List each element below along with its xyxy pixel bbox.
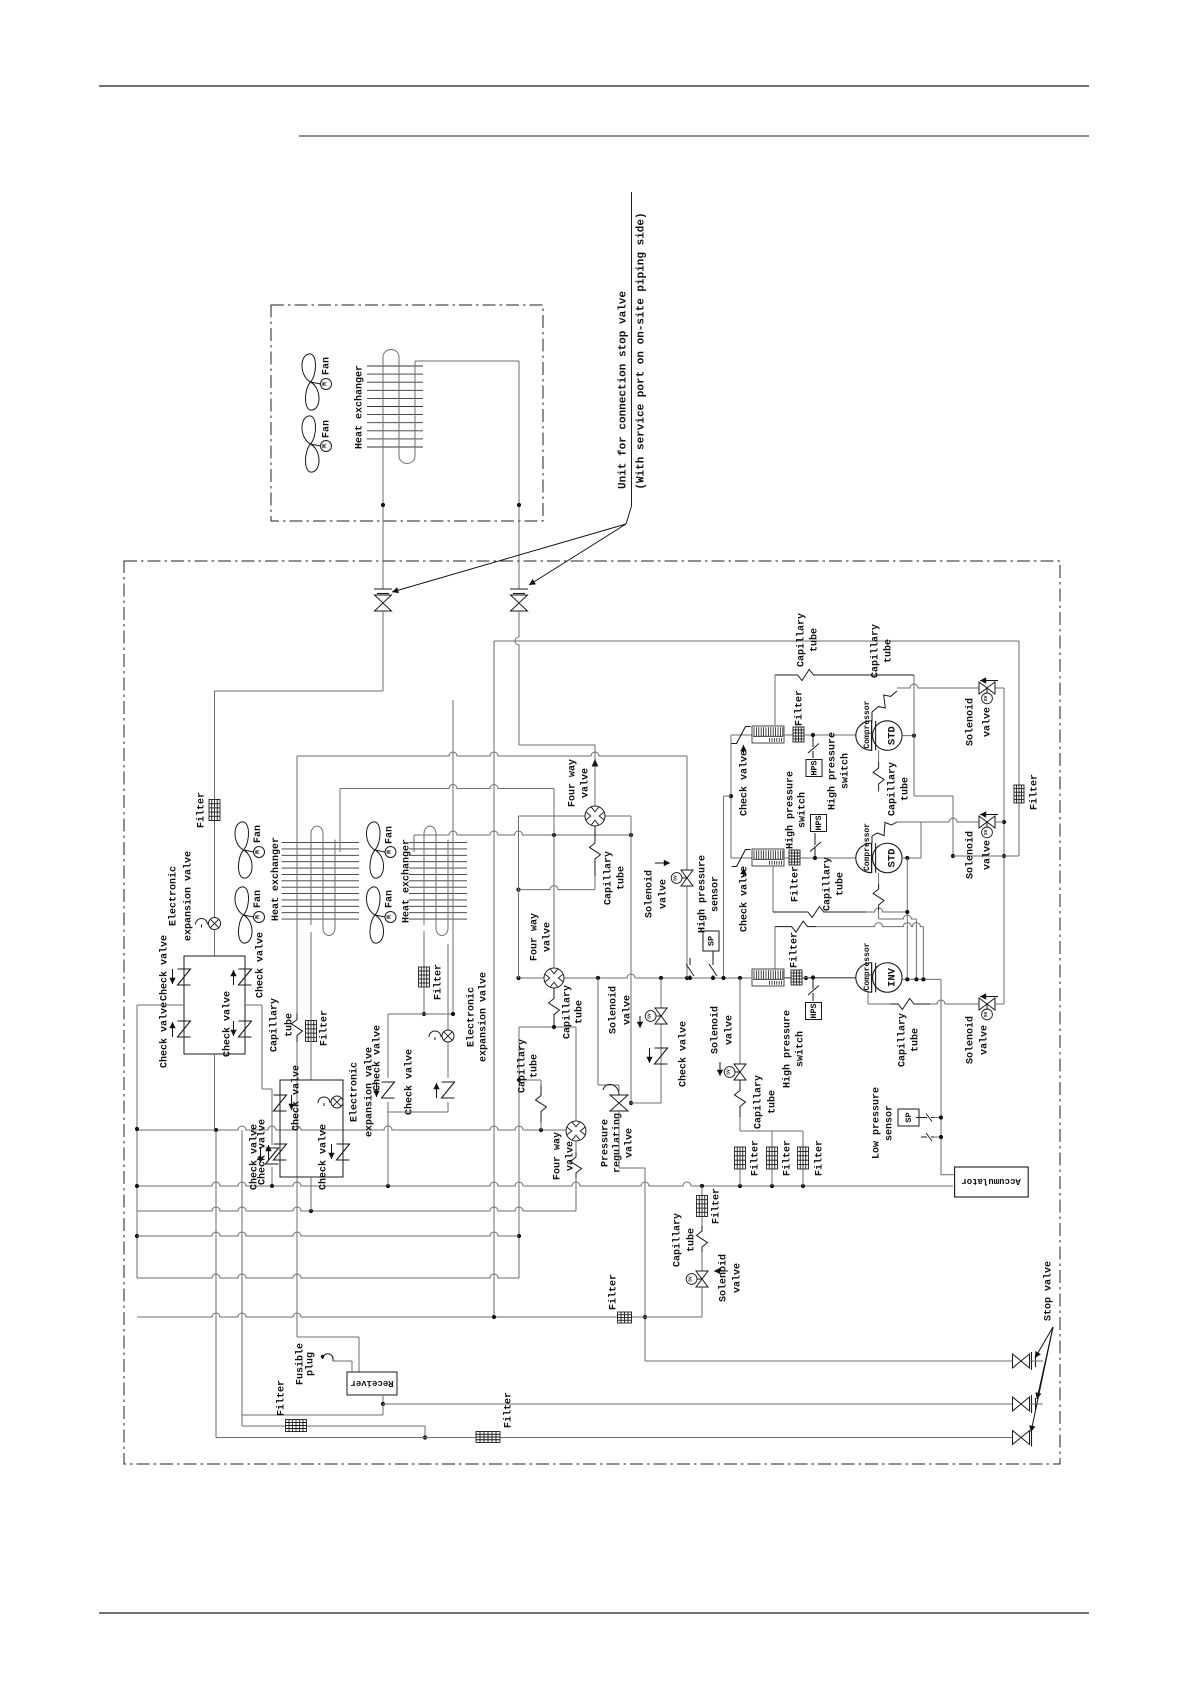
svg-text:M: M: [322, 444, 329, 448]
svg-text:Filter: Filter: [793, 690, 805, 726]
svg-text:plug: plug: [304, 1352, 316, 1376]
svg-text:Pressure: Pressure: [600, 1119, 611, 1167]
svg-text:Check valve: Check valve: [221, 991, 233, 1057]
svg-text:valve: valve: [657, 879, 669, 909]
svg-text:Filter: Filter: [1028, 774, 1040, 810]
svg-text:Solenoid: Solenoid: [964, 831, 976, 879]
svg-text:valve: valve: [541, 922, 553, 952]
svg-text:switch: switch: [794, 1031, 806, 1067]
svg-text:Check valve: Check valve: [256, 1119, 268, 1185]
svg-text:Capillary: Capillary: [869, 624, 881, 678]
svg-text:Check valve: Check valve: [677, 1021, 689, 1087]
svg-text:Solenoid: Solenoid: [607, 986, 619, 1034]
svg-text:Filter: Filter: [502, 1392, 514, 1428]
svg-text:Fan: Fan: [253, 890, 264, 908]
svg-text:Compressor: Compressor: [863, 700, 872, 748]
svg-text:sensor: sensor: [710, 876, 721, 912]
svg-text:Check valve: Check valve: [254, 932, 266, 998]
svg-text:Fan: Fan: [321, 357, 332, 375]
svg-text:M: M: [255, 850, 262, 854]
svg-text:tube: tube: [283, 1013, 295, 1037]
svg-text:switch: switch: [796, 792, 808, 828]
svg-text:Four way: Four way: [567, 759, 578, 807]
svg-text:Capillary: Capillary: [602, 851, 614, 905]
svg-text:Fan: Fan: [321, 420, 332, 438]
svg-text:Solenoid: Solenoid: [709, 1006, 721, 1054]
svg-text:Electronic: Electronic: [348, 1062, 360, 1122]
svg-text:Capillary: Capillary: [752, 1075, 764, 1129]
svg-text:M: M: [322, 382, 329, 386]
svg-text:valve: valve: [621, 995, 633, 1025]
svg-text:valve: valve: [723, 1015, 735, 1045]
svg-text:Check valve: Check valve: [158, 935, 170, 1001]
svg-text:M: M: [386, 915, 393, 919]
svg-text:Fan: Fan: [253, 825, 264, 843]
svg-text:SV: SV: [983, 695, 989, 701]
svg-text:High pressure: High pressure: [826, 732, 838, 810]
svg-text:SV: SV: [647, 1013, 653, 1019]
svg-text:Capillary: Capillary: [795, 613, 807, 667]
svg-text:M: M: [386, 850, 393, 854]
svg-text:tube: tube: [615, 866, 627, 890]
svg-text:valve: valve: [731, 1263, 743, 1293]
svg-text:Electronic: Electronic: [167, 866, 179, 926]
svg-text:Filter: Filter: [318, 1010, 330, 1046]
svg-text:Check valve: Check valve: [371, 1025, 383, 1091]
svg-text:Capillary: Capillary: [896, 1013, 908, 1067]
svg-text:valve: valve: [564, 1141, 576, 1171]
svg-text:M: M: [255, 915, 262, 919]
svg-text:tube: tube: [766, 1090, 778, 1114]
svg-text:tube: tube: [573, 1000, 585, 1024]
svg-text:SV: SV: [673, 875, 679, 881]
svg-text:Solenoid: Solenoid: [643, 870, 655, 918]
svg-text:SP: SP: [706, 936, 716, 946]
svg-text:tube: tube: [834, 872, 846, 896]
svg-text:Check valve: Check valve: [738, 866, 750, 932]
svg-text:Check valve: Check valve: [158, 1002, 170, 1068]
svg-text:valve: valve: [623, 1128, 635, 1158]
svg-text:Compressor: Compressor: [863, 823, 872, 871]
svg-text:Filter: Filter: [607, 1274, 619, 1310]
svg-text:tube: tube: [528, 1054, 540, 1078]
svg-text:HPS: HPS: [809, 760, 819, 775]
svg-text:Filter: Filter: [781, 1140, 793, 1176]
svg-text:SV: SV: [983, 829, 989, 835]
svg-text:tube: tube: [808, 628, 820, 652]
svg-text:regulating: regulating: [611, 1113, 623, 1173]
svg-text:Compressor: Compressor: [863, 942, 872, 990]
svg-text:switch: switch: [839, 753, 851, 789]
svg-text:Low pressure: Low pressure: [871, 1087, 882, 1159]
svg-text:valve: valve: [579, 768, 591, 798]
svg-text:expansion valve: expansion valve: [477, 972, 489, 1062]
svg-text:STD: STD: [886, 726, 898, 745]
svg-text:STD: STD: [886, 849, 898, 868]
svg-text:valve: valve: [978, 1025, 990, 1055]
svg-text:Filter: Filter: [813, 1140, 825, 1176]
svg-text:tube: tube: [909, 1028, 921, 1052]
svg-text:Capillary: Capillary: [886, 762, 898, 816]
svg-text:High pressure: High pressure: [784, 771, 796, 849]
svg-text:tube: tube: [685, 1228, 697, 1252]
svg-text:SV: SV: [983, 1011, 989, 1017]
svg-text:Fan: Fan: [384, 890, 395, 908]
svg-text:Filter: Filter: [195, 792, 207, 828]
svg-text:valve: valve: [981, 707, 993, 737]
svg-text:Four way: Four way: [552, 1132, 563, 1180]
svg-text:Check valve: Check valve: [317, 1124, 329, 1190]
svg-text:sensor: sensor: [884, 1105, 895, 1141]
svg-text:Four way: Four way: [529, 913, 540, 961]
svg-text:High pressure: High pressure: [781, 1010, 793, 1088]
svg-text:Receiver: Receiver: [350, 1378, 393, 1388]
svg-text:Filter: Filter: [789, 866, 801, 902]
svg-text:(With service port on on-site: (With service port on on-site piping sid…: [636, 212, 648, 489]
svg-text:Capillary: Capillary: [561, 985, 573, 1039]
svg-text:tube: tube: [882, 639, 894, 663]
svg-text:expansion valve: expansion valve: [182, 851, 194, 941]
svg-text:SP: SP: [904, 1112, 914, 1122]
svg-text:Capillary: Capillary: [671, 1213, 683, 1267]
svg-text:Capillary: Capillary: [821, 857, 833, 911]
svg-text:Unit for connection stop valve: Unit for connection stop valve: [618, 291, 630, 489]
svg-text:Filter: Filter: [710, 1188, 722, 1224]
svg-text:Capillary: Capillary: [268, 998, 280, 1052]
svg-text:Solenoid: Solenoid: [717, 1254, 729, 1302]
svg-text:HPS: HPS: [809, 1003, 819, 1018]
svg-text:Heat exchanger: Heat exchanger: [353, 365, 365, 449]
svg-text:Filter: Filter: [749, 1140, 761, 1176]
svg-text:Stop valve: Stop valve: [1042, 1261, 1054, 1321]
svg-text:SV: SV: [726, 1069, 732, 1075]
svg-text:Fan: Fan: [384, 826, 395, 844]
svg-text:Heat exchanger: Heat exchanger: [270, 837, 282, 921]
svg-text:Check valve: Check valve: [738, 750, 750, 816]
svg-text:Filter: Filter: [788, 932, 800, 968]
svg-text:SV: SV: [688, 1276, 694, 1282]
svg-text:Accumulator: Accumulator: [961, 1176, 1020, 1186]
svg-text:tube: tube: [899, 777, 911, 801]
svg-text:Check valve: Check valve: [290, 1065, 302, 1131]
svg-text:HPS: HPS: [814, 815, 824, 830]
svg-text:Electronic: Electronic: [465, 987, 477, 1047]
svg-text:High pressure: High pressure: [696, 855, 708, 933]
svg-text:INV: INV: [886, 967, 898, 987]
svg-text:Check valve: Check valve: [403, 1049, 415, 1115]
svg-text:valve: valve: [981, 840, 993, 870]
svg-text:Capillary: Capillary: [516, 1039, 528, 1093]
svg-text:Filter: Filter: [432, 964, 444, 1000]
svg-text:Solenoid: Solenoid: [964, 698, 976, 746]
svg-text:Filter: Filter: [275, 1380, 287, 1416]
svg-text:Solenoid: Solenoid: [964, 1016, 976, 1064]
